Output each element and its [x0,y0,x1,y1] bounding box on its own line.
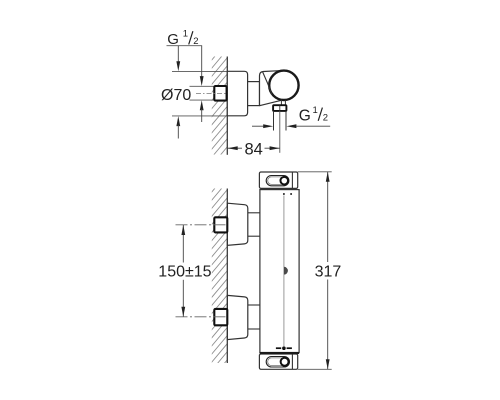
svg-text:150±15: 150±15 [158,264,211,281]
svg-text:2: 2 [193,36,198,47]
svg-text:G: G [299,108,311,125]
svg-text:Ø70: Ø70 [161,87,191,104]
svg-text:G: G [167,31,179,48]
svg-text:1: 1 [183,29,188,40]
svg-text:317: 317 [315,263,342,280]
svg-text:1: 1 [313,105,318,116]
svg-text:2: 2 [323,112,328,123]
svg-text:84: 84 [245,140,263,158]
